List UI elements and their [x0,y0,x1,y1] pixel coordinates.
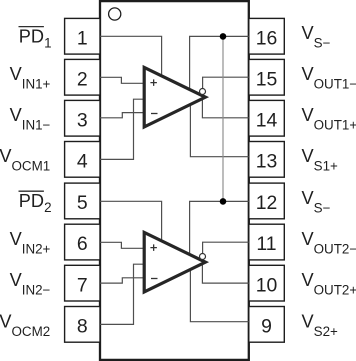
svg-text:VOCM2: VOCM2 [0,311,50,339]
svg-text:VIN1−: VIN1− [10,105,51,133]
pin 1 indicator circle [109,8,121,20]
pin 14 box [249,100,284,136]
svg-text:11: 11 [256,233,276,255]
op-amp U1b triangle [144,232,205,292]
wire VIN2- pin 7 to U1b - input [100,278,145,283]
svg-text:13: 13 [256,151,278,173]
svg-text:VOUT1−: VOUT1− [302,64,356,92]
svg-text:VS2+: VS2+ [302,311,339,339]
svg-text:VOUT1+: VOUT1+ [302,105,356,133]
svg-text:2: 2 [77,68,88,90]
svg-text:16: 16 [256,28,278,50]
op-amp U1a inverting output circle [200,89,206,95]
wire VOCM2 pin 8 to U1b left edge [100,264,145,324]
svg-text:PD2: PD2 [19,191,52,215]
pin 13 box [249,142,284,178]
svg-text:VS1+: VS1+ [302,146,339,174]
wire VOUT1- pin 15 to U1a inverting output [203,77,249,88]
svg-text:5: 5 [77,192,88,214]
svg-text:VIN1+: VIN1+ [10,64,51,92]
wire VIN1- pin 3 to U1a - input [100,113,145,118]
op-amp U1a - input marker [151,113,158,115]
svg-text:14: 14 [256,110,278,132]
wire PD1 pin 1 to U1a top edge [100,36,162,76]
svg-text:6: 6 [77,233,88,255]
pin 1 box [65,18,100,54]
wire VIN1+ pin 2 to U1a + input [100,77,145,83]
svg-text:VOUT2−: VOUT2− [302,229,356,257]
op-amp U1b - input marker [151,278,158,280]
svg-text:12: 12 [256,192,278,214]
svg-text:9: 9 [261,316,272,338]
pin 7 box [65,265,100,301]
pin 6 box [65,224,100,260]
junction dot at pin 12 VS- [220,198,227,205]
package outline U1 [100,1,249,360]
wire PD2 pin 5 to U1b top edge [100,201,162,241]
overline of PD2 [19,190,44,192]
wire VS2+ pin 9 to U1b bottom edge [190,270,248,322]
wire VS- pin 16 to U1a top edge [190,36,249,89]
wire VOUT2+ pin 10 to U1b output apex [202,265,248,283]
pin 2 box [65,59,100,95]
svg-text:4: 4 [77,151,88,173]
wire VS- pin 12 to U1b top edge [190,201,249,254]
pin 15 box [249,59,284,95]
overline of PD1 [19,26,44,28]
op-amp U1a triangle [144,67,205,127]
wire VIN2+ pin 6 to U1b + input [100,242,145,248]
wire VS1+ pin 13 to U1a bottom edge [190,105,248,157]
wire VS- bus between pin 16 and pin 12 [222,36,224,201]
svg-text:3: 3 [77,110,88,132]
svg-text:VOCM1: VOCM1 [0,146,50,174]
op-amp U1a + input marker [150,79,157,86]
svg-text:VS−: VS− [302,23,331,51]
pin 3 box [65,100,100,136]
wire VOCM1 pin 4 to U1a left edge [100,99,145,159]
pin 8 box [65,307,100,343]
op-amp U1b inverting output circle [200,254,206,260]
pin 10 box [249,265,284,301]
pin 12 box [249,183,284,219]
svg-text:VS−: VS− [302,188,331,216]
svg-text:1: 1 [77,28,88,50]
pin 4 box [65,142,100,178]
svg-text:15: 15 [256,68,278,90]
svg-text:7: 7 [77,274,88,296]
junction dot at pin 16 VS- [220,33,227,40]
pin 5 box [65,183,100,219]
pin 16 box [249,18,284,54]
svg-text:VIN2+: VIN2+ [10,229,51,257]
svg-text:VOUT2+: VOUT2+ [302,270,356,298]
svg-text:8: 8 [77,316,88,338]
op-amp U1b + input marker [150,244,157,251]
pin 11 box [249,224,284,260]
svg-text:10: 10 [256,274,278,296]
wire VOUT2- pin 11 to U1b inverting output [203,242,249,253]
svg-text:VIN2−: VIN2− [10,270,51,298]
wire VOUT1+ pin 14 to U1a output apex [202,100,248,118]
svg-text:PD1: PD1 [19,27,52,51]
pin 9 box [249,307,284,343]
